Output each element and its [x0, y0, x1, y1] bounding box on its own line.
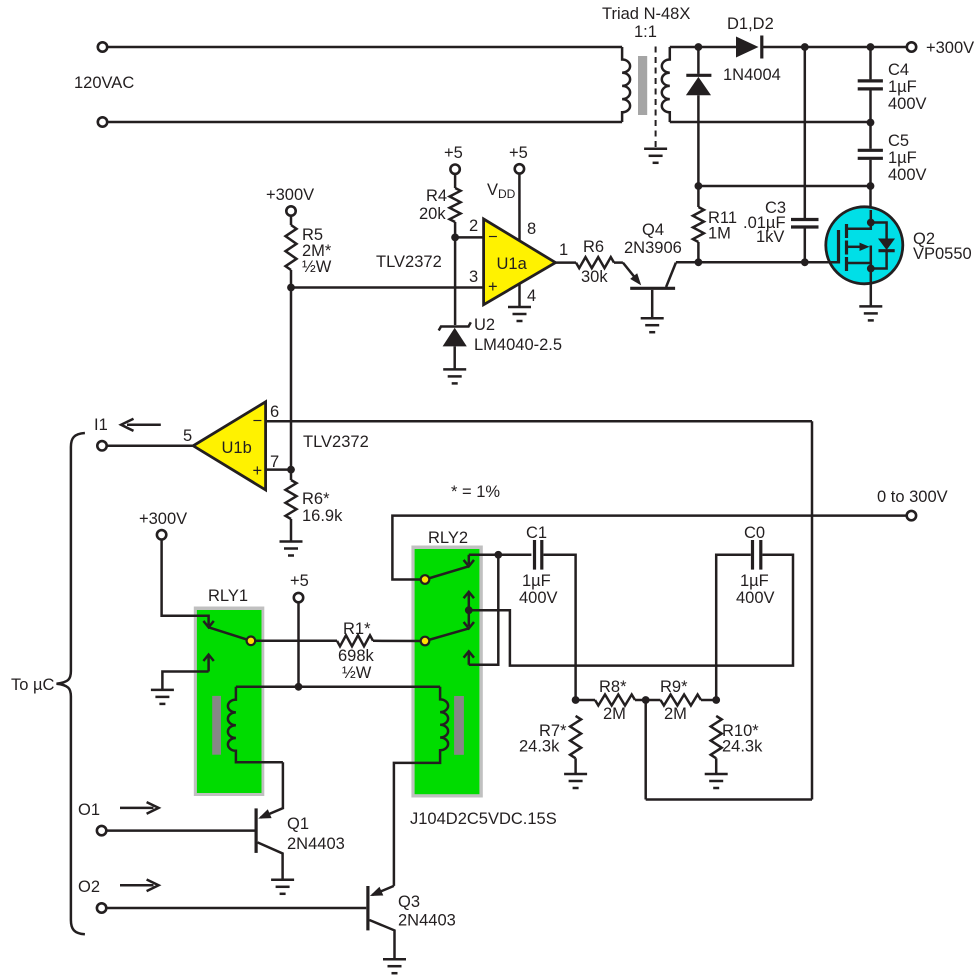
svg-text:2M: 2M	[664, 705, 687, 723]
diode D2 (vertical, anode down)	[686, 47, 712, 186]
svg-text:TLV2372: TLV2372	[303, 433, 369, 451]
terminal +5 (relays)	[294, 593, 303, 602]
terminal +5 (R4)	[450, 165, 459, 174]
wire R7 node to R8	[576, 699, 595, 702]
Q2 drain connection	[847, 210, 871, 229]
ground (R7*)	[564, 774, 587, 788]
RLY2 middle switch arrowhead	[464, 622, 474, 628]
junction R5/pin3	[287, 284, 295, 292]
Q2 source connection	[847, 263, 871, 284]
svg-text:J104D2C5VDC.15S: J104D2C5VDC.15S	[410, 810, 557, 828]
svg-text:3: 3	[469, 268, 478, 286]
resistor R1*	[337, 635, 373, 646]
wire feedback loop right side	[811, 421, 814, 799]
svg-text:O2: O2	[78, 878, 100, 896]
Q2 channel segments	[845, 224, 848, 271]
svg-text:R6*: R6*	[302, 490, 330, 508]
wire RLY2 top fixed to C1	[469, 554, 532, 557]
junction Q2 source dot	[867, 265, 875, 273]
resistor R6	[576, 257, 614, 268]
transistor Q2 body circle	[826, 207, 903, 284]
capacitor C0	[753, 540, 761, 570]
wire Q4 collector / gate line	[676, 261, 839, 264]
RLY2 top NO contact arrow	[464, 592, 474, 610]
junction gate at C3	[801, 258, 809, 266]
wire feedback loop up to R8/R9 node	[644, 700, 647, 800]
relay RLY2 body	[411, 546, 482, 798]
svg-text:400V: 400V	[888, 95, 927, 113]
terminal +300V output	[907, 42, 916, 51]
terminal O2	[97, 903, 106, 912]
svg-text:RLY2: RLY2	[428, 529, 468, 547]
wire U1a pin 1 output	[556, 261, 577, 264]
svg-text:* = 1%: * = 1%	[451, 483, 500, 501]
svg-text:400V: 400V	[888, 166, 927, 184]
junction R9/R10/C0	[712, 696, 720, 704]
svg-text:R6: R6	[583, 238, 604, 256]
svg-text:R9*: R9*	[660, 678, 688, 696]
junction top rail at D2	[695, 43, 703, 51]
relay RLY2 armature slug	[454, 696, 464, 755]
arrow O1 (pointing right)	[120, 802, 159, 814]
junction pin7/R6*	[287, 466, 295, 474]
wire U1b pin 6 feedback line	[266, 420, 812, 423]
terminal I1	[97, 441, 106, 450]
capacitor C4	[858, 47, 883, 123]
Q2 internal body diode	[871, 223, 895, 269]
relay RLY1 coil	[228, 687, 283, 763]
wire 120VAC bottom rail	[108, 121, 623, 124]
svg-text:4: 4	[527, 287, 536, 305]
terminal 120VAC top	[98, 42, 107, 51]
wire R9 to R10 node	[701, 699, 716, 702]
svg-text:+: +	[253, 462, 263, 480]
ground (RLY1 NO)	[151, 690, 174, 704]
junction mid node C5/Q2	[867, 182, 875, 190]
wire U1a pin 2	[455, 236, 484, 239]
zener U2	[439, 322, 471, 369]
RLY2 top common pivot	[421, 575, 430, 584]
RLY2 top switch arrowhead	[464, 560, 474, 566]
wire Q2 source to ground	[870, 284, 873, 307]
transistor Q4	[623, 263, 676, 319]
svg-text:16.9k: 16.9k	[302, 507, 343, 525]
transformer T1 core	[638, 56, 647, 115]
terminal +300V (R5)	[286, 206, 295, 215]
svg-text:1µF: 1µF	[522, 572, 551, 590]
brace To uC	[57, 433, 85, 934]
relay RLY1 armature slug	[212, 696, 221, 755]
svg-text:1: 1	[559, 241, 568, 259]
svg-text:+5: +5	[444, 144, 463, 162]
transistor Q1	[256, 762, 283, 880]
svg-text:Q3: Q3	[398, 893, 420, 911]
ground (transformer shield)	[644, 149, 667, 163]
RLY2 middle common pivot	[421, 637, 430, 646]
wire coil supply line	[236, 686, 440, 689]
wire secondary top to D1	[670, 46, 736, 49]
svg-text:+: +	[488, 278, 498, 296]
junction R8/R9/loop	[642, 696, 650, 704]
svg-text:6: 6	[270, 403, 279, 421]
wire U1b pin 5 output	[107, 445, 193, 448]
wire C5 bottom to Q2 drain	[869, 186, 872, 210]
svg-text:30k: 30k	[581, 268, 608, 286]
svg-text:Triad N-48X: Triad N-48X	[602, 5, 690, 23]
svg-text:½W: ½W	[302, 258, 332, 276]
svg-text:D1,D2: D1,D2	[727, 15, 774, 33]
svg-text:8: 8	[527, 220, 536, 238]
junction gate at R11	[695, 258, 703, 266]
RLY2 middle switch arm	[425, 628, 469, 641]
capacitor C5	[858, 123, 883, 187]
svg-text:TLV2372: TLV2372	[376, 253, 442, 271]
wire RLY1 NO contact to ground	[162, 672, 208, 690]
junction R7/R8/C1	[572, 696, 580, 704]
wire RLY2 middle fixed to C0 loop	[469, 555, 793, 666]
wire mid node horizontal (R11 top to C5 bottom)	[698, 185, 870, 188]
ground (Q1)	[271, 880, 294, 894]
svg-text:C0: C0	[744, 524, 765, 542]
Q2 gate lead inside	[820, 261, 839, 264]
RLY2 top switch fixed stub	[468, 555, 471, 564]
wire feedback loop bottom	[646, 798, 812, 801]
resistor R9*	[661, 695, 702, 706]
Q2 body arrow	[847, 243, 871, 269]
svg-text:R4: R4	[426, 187, 447, 205]
transformer T1 primary winding	[622, 47, 630, 122]
svg-text:+5: +5	[509, 144, 528, 162]
RLY2 bottom NO contact arrow	[464, 651, 474, 665]
resistor R10*	[711, 716, 722, 774]
junction +5/coil line	[295, 683, 303, 691]
svg-text:U1b: U1b	[222, 439, 252, 457]
terminal +300V (RLY1)	[157, 530, 166, 539]
svg-text:1:1: 1:1	[634, 23, 657, 41]
op-amp U1b	[193, 402, 265, 490]
svg-text:1µF: 1µF	[740, 572, 769, 590]
svg-text:2: 2	[469, 217, 478, 235]
svg-text:1µF: 1µF	[888, 149, 917, 167]
transformer T1 shield dashed line	[655, 47, 657, 148]
wire R6 to Q4 emitter	[614, 261, 623, 264]
svg-text:+300V: +300V	[139, 510, 187, 528]
ground (U1a pin 4)	[508, 307, 531, 321]
wire C0 left to R10 node	[716, 555, 751, 700]
arrow O2 (pointing right)	[120, 880, 159, 892]
svg-text:C1: C1	[526, 524, 547, 542]
ground (R6*)	[280, 542, 303, 556]
wire D1 cathode to +300V terminal	[762, 46, 907, 49]
svg-text:+5: +5	[290, 572, 309, 590]
wire C1 right to R7 node	[544, 555, 576, 700]
svg-text:Q4: Q4	[642, 221, 664, 239]
svg-text:0 to 300V: 0 to 300V	[877, 488, 948, 506]
svg-text:400V: 400V	[736, 589, 775, 607]
capacitor C3	[791, 47, 819, 262]
svg-text:−: −	[253, 412, 263, 430]
wire +300V to RLY1 common	[162, 540, 209, 626]
svg-text:LM4040-2.5: LM4040-2.5	[474, 336, 562, 354]
resistor R8*	[595, 695, 635, 706]
svg-text:I1: I1	[94, 416, 108, 434]
wire O2 to Q3 base	[106, 907, 366, 910]
svg-text:7: 7	[270, 453, 279, 471]
svg-text:24.3k: 24.3k	[519, 738, 560, 756]
svg-text:120VAC: 120VAC	[74, 74, 134, 92]
resistor R4	[450, 174, 461, 237]
svg-text:5: 5	[183, 427, 192, 445]
RLY1 NO contact arrow	[203, 655, 213, 672]
wire R8 to R9	[635, 699, 661, 702]
svg-text:20k: 20k	[419, 205, 446, 223]
wire 120VAC top rail	[108, 46, 623, 49]
junction top rail at C4	[867, 43, 875, 51]
ground (U2)	[443, 369, 466, 383]
wire R4/U2 node down	[454, 237, 457, 325]
svg-text:U2: U2	[474, 316, 495, 334]
resistor R7*	[570, 716, 581, 774]
RLY2 top switch arm	[425, 566, 469, 579]
RLY1 common pivot	[247, 637, 256, 646]
relay RLY2 coil	[394, 687, 448, 886]
resistor R11	[693, 186, 704, 262]
wire RLY2 bottom NO to C1 node	[469, 555, 499, 665]
transformer T1 secondary winding	[662, 47, 670, 122]
ground (Q3)	[383, 959, 406, 973]
svg-text:RLY1: RLY1	[208, 587, 248, 605]
svg-text:−: −	[488, 228, 498, 246]
svg-text:2M: 2M	[603, 705, 626, 723]
svg-text:C4: C4	[888, 61, 909, 79]
wire secondary bottom rail	[670, 121, 871, 124]
svg-text:U1a: U1a	[497, 255, 528, 273]
transistor Q3	[368, 886, 395, 959]
diode D1,D2	[736, 36, 762, 59]
junction R4/pin2/U2	[451, 234, 459, 242]
terminal 120VAC bottom	[98, 117, 107, 126]
junction RLY2 middle contact	[465, 606, 473, 614]
wire R5 node down to U1b pin 7	[290, 288, 293, 470]
capacitor C1	[535, 540, 542, 570]
svg-text:R8*: R8*	[599, 678, 627, 696]
svg-text:To µC: To µC	[11, 676, 55, 694]
svg-text:C5: C5	[888, 132, 909, 150]
ground (Q4 base)	[641, 318, 664, 332]
svg-text:1kV: 1kV	[756, 228, 784, 246]
svg-text:Q1: Q1	[287, 815, 309, 833]
svg-text:2N4403: 2N4403	[287, 835, 345, 853]
wire U1a pin 3 input line	[291, 286, 484, 289]
wire R1* to RLY2 common	[373, 640, 425, 643]
svg-text:1N4004: 1N4004	[723, 66, 781, 84]
resistor R5	[286, 216, 297, 288]
wire 0-300V output to RLY2 common	[392, 516, 906, 580]
terminal +5 (VDD)	[515, 164, 524, 173]
wire +5 down to coil line	[297, 602, 300, 686]
svg-text:400V: 400V	[519, 589, 558, 607]
svg-text:R1*: R1*	[343, 620, 371, 638]
wire U1b pin 7	[266, 468, 291, 471]
Q2 gate bar	[837, 230, 840, 264]
junction rail2 at C4/C5	[867, 119, 875, 127]
svg-text:1M: 1M	[708, 225, 731, 243]
arrow I1 (pointing left)	[121, 419, 161, 431]
RLY1 switch arm arrowhead	[203, 621, 213, 627]
svg-text:VP0550: VP0550	[913, 245, 972, 263]
svg-text:+300V: +300V	[266, 186, 314, 204]
junction C1/RLY2	[494, 551, 502, 559]
wire O1 to Q1 base	[106, 829, 254, 832]
ground (Q2)	[859, 306, 882, 320]
svg-text:698k: 698k	[338, 647, 375, 665]
svg-text:O1: O1	[78, 801, 100, 819]
junction top rail at C3	[801, 43, 809, 51]
svg-text:+300V: +300V	[926, 39, 974, 57]
svg-text:24.3k: 24.3k	[722, 738, 763, 756]
wire VDD to U1a pin 8	[518, 174, 521, 241]
junction Q2 drain dot	[867, 219, 875, 227]
op-amp U1a	[484, 219, 556, 305]
svg-text:2N4403: 2N4403	[398, 912, 456, 930]
junction mid node R11	[695, 182, 703, 190]
relay RLY1 body	[194, 607, 264, 797]
terminal O1	[97, 826, 106, 835]
resistor R6*	[286, 470, 297, 542]
RLY1 switch arm	[209, 627, 251, 641]
terminal 0 to 300V	[907, 511, 916, 520]
svg-text:½W: ½W	[342, 664, 372, 682]
svg-text:1µF: 1µF	[888, 78, 917, 96]
wire U1a pin 4 to ground	[518, 284, 521, 307]
ground (R10*)	[705, 774, 728, 788]
wire RLY1 common to R1*	[251, 640, 337, 643]
svg-text:2N3906: 2N3906	[624, 239, 682, 257]
RLY2 middle switch fixed stub	[468, 610, 471, 626]
